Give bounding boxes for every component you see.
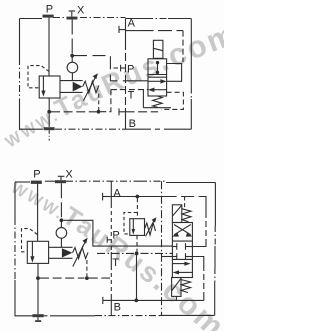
svg-text:B: B [129, 118, 136, 130]
svg-text:P: P [112, 230, 119, 242]
directional valve DV top cap [172, 205, 181, 223]
relief valve RV2 body [27, 241, 48, 263]
relief valve RV1 body [39, 76, 60, 98]
svg-text:X: X [77, 5, 85, 17]
port tick P2 inner [107, 237, 111, 243]
reducing valve CV1 pilot cap [153, 40, 163, 58]
wire RV1 outlet to T [48, 98, 50, 110]
port X [67, 5, 86, 20]
drain line dashed [51, 111, 97, 113]
watermark top [3, 16, 242, 152]
relief valve RV1 flow path arrow [41, 76, 45, 96]
wire X pilot drop [71, 20, 73, 55]
wire ball to pilot channel [60, 238, 62, 247]
CV1 feedback loop [167, 64, 182, 82]
svg-text:P: P [33, 169, 40, 181]
CV1 flow arrow right [148, 79, 167, 84]
relief valve RV2 flow path arrow [30, 242, 34, 263]
node B junction [134, 299, 138, 303]
wire A gallery [126, 30, 184, 32]
wire DV left T port [162, 256, 173, 258]
CV1 closed position ports [156, 61, 159, 74]
node T gallery junction [135, 252, 139, 256]
port tick A2 [103, 193, 112, 201]
port T2 [32, 314, 43, 322]
wire T2 stem [37, 279, 39, 314]
reducing valve CV1 body [148, 59, 167, 96]
directional valve DV bottom spring [181, 280, 190, 293]
reducing valve RD2 pilot dashed loop [124, 213, 137, 234]
svg-text:B: B [114, 302, 121, 314]
CV1 drain loop dashed [161, 92, 183, 109]
relief valve RV2 pilot dashed loop [22, 229, 38, 252]
wire A2 gallery [111, 196, 163, 198]
reducing valve RD2 spring [145, 223, 156, 235]
svg-text:T: T [128, 90, 135, 102]
svg-text:P: P [46, 4, 53, 16]
plate boundary top edge [20, 18, 192, 19]
port P2 [31, 169, 42, 184]
wire X2 junction to ball [60, 220, 62, 227]
port X2 [55, 169, 73, 184]
orifice ball on X2 line [56, 228, 67, 239]
node X junction [70, 54, 74, 58]
wire RD2 outlet to B [136, 255, 138, 300]
wire RV2 outlet [37, 263, 39, 276]
wire valve T side dashed [111, 89, 148, 91]
orifice ball on X line [67, 62, 78, 73]
relief valve RV2 spring [73, 248, 89, 259]
frame left edge [14, 182, 16, 316]
DV blocked position [172, 243, 192, 260]
reducing valve RD2 flow arrow [132, 219, 136, 235]
reducing valve RD2 dashed stem upper [136, 198, 138, 217]
relief valve RV2 pilot channel [49, 247, 73, 258]
wire T gallery dashed [126, 111, 159, 113]
relief valve RV1 pilot triangle [73, 82, 83, 92]
plate boundary left edge [19, 19, 21, 130]
watermark bottom [8, 179, 233, 331]
wire T stem [48, 113, 50, 127]
node drain junction 3 [36, 276, 40, 280]
relief valve RV2 pilot triangle [62, 248, 73, 257]
frame right edge [214, 183, 217, 316]
CV1 flow arrow left [148, 88, 167, 93]
directional valve DV top spring [182, 209, 191, 222]
B gallery line [111, 299, 204, 301]
port tick B2 [103, 297, 112, 304]
relief valve RV1 pilot channel [60, 81, 83, 93]
section divider left/middle [110, 181, 112, 316]
wire A gallery drop (dashed) [182, 31, 184, 62]
wire X2 pilot to valve supply [63, 220, 172, 246]
wire A2 gallery dashed continue [164, 196, 199, 198]
svg-text:A: A [113, 188, 121, 200]
directional valve DV body [172, 223, 192, 278]
wire junction to ball [71, 56, 73, 63]
wire CV1 spring seat [143, 90, 171, 108]
reducing valve RD2 body [130, 219, 145, 236]
drain line 2 dashed [40, 277, 85, 279]
wire DV right B port [192, 257, 203, 301]
port tick A [119, 26, 126, 33]
DV crossed position [172, 225, 193, 237]
frame bottom edge [15, 314, 215, 316]
wire spring chamber drain [98, 94, 100, 110]
relief valve RV2 adjust arrow [73, 238, 88, 267]
wire drain continue to riser [100, 90, 111, 112]
wire X pilot to plate (dashed) [74, 56, 124, 81]
relief valve RV1 adjust arrow [83, 73, 98, 101]
wire ball to pilot channel [71, 73, 73, 81]
wire A2 pilot drop dashed [184, 197, 186, 208]
svg-text:T: T [112, 257, 119, 269]
plate boundary right edge [190, 19, 192, 130]
relief valve RV1 spring [83, 81, 99, 93]
plate boundary bottom edge [20, 128, 192, 130]
T gallery dash-dot line [97, 252, 172, 254]
wire P stem [48, 18, 50, 76]
wire X2 pilot drop [60, 183, 62, 219]
svg-text:X: X [65, 169, 73, 181]
port tick Pi [121, 65, 126, 72]
node X2 junction [60, 218, 64, 222]
wire plate P supply [124, 80, 148, 82]
DV parallel position arrows [173, 262, 193, 275]
wire DV bottom stem [175, 296, 177, 300]
node drain junction 2 [97, 110, 101, 114]
frame top edge [15, 181, 215, 182]
wire drain to plate [89, 277, 110, 279]
dash remnant left of P tick [114, 67, 119, 69]
reducing valve RD2 dashed stem lower [136, 235, 138, 251]
node drain junction 4 [85, 276, 89, 280]
port P [43, 4, 54, 18]
relief valve RV1 pilot dashed loop [28, 66, 49, 88]
wire A2 corner to valve [192, 197, 206, 247]
wire spring chamber drain 2 [86, 260, 88, 276]
plate section divider vertical [125, 19, 127, 130]
CV1 spring [153, 96, 163, 107]
wire P2 stem [37, 183, 39, 241]
port tick T inner [119, 108, 126, 115]
reducing valve RD2 adjust arrow [146, 217, 157, 236]
port T [44, 127, 55, 140]
node A2 junction [136, 195, 140, 199]
node drain junction 1 [47, 110, 51, 114]
svg-text:P: P [127, 64, 134, 76]
section divider middle/right [161, 181, 163, 315]
directional valve DV bottom cap [172, 278, 181, 297]
svg-text:A: A [128, 18, 136, 30]
